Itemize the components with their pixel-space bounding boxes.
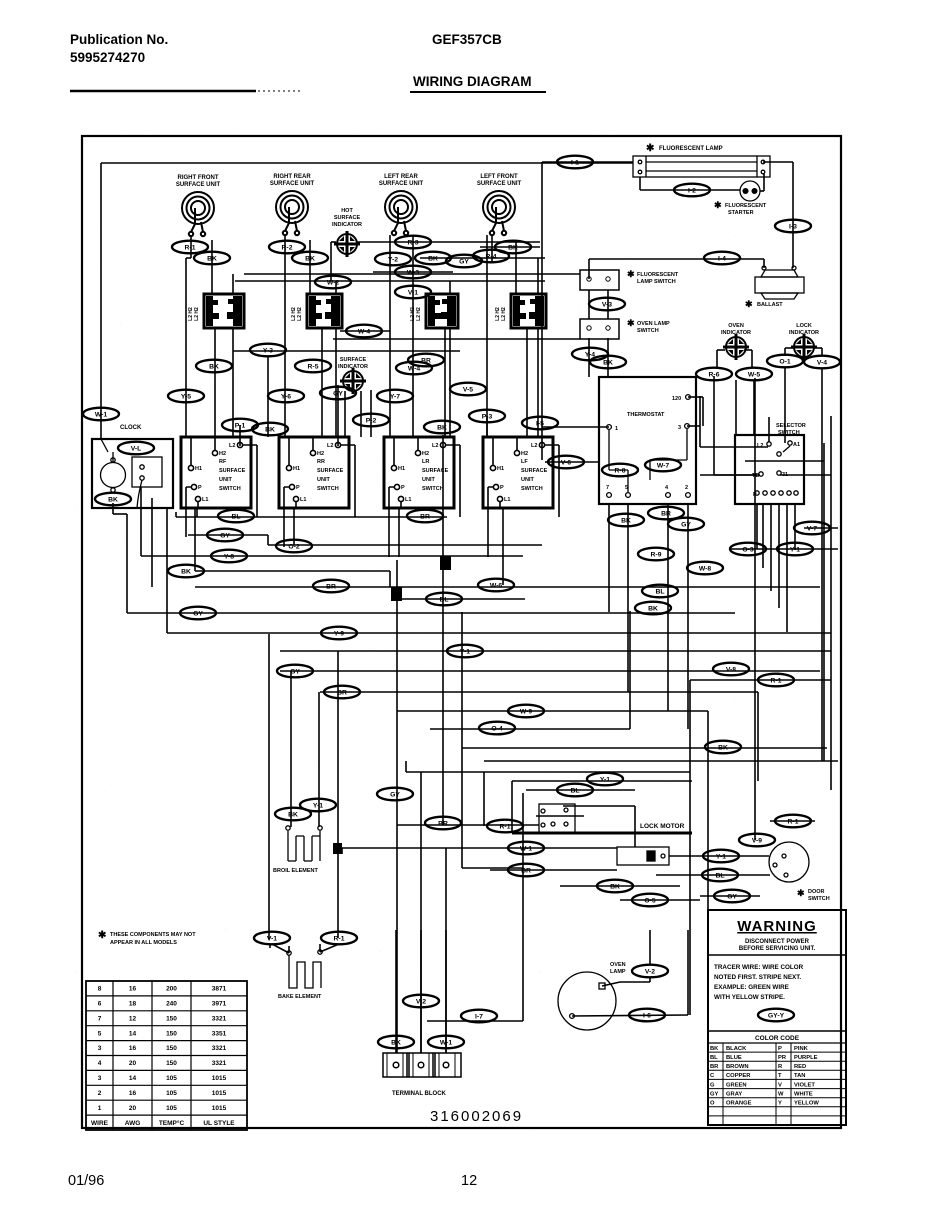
svg-text:Y-9: Y-9 [334, 630, 344, 637]
svg-text:31: 31 [782, 472, 788, 478]
svg-text:Y-3: Y-3 [263, 347, 273, 354]
svg-text:105: 105 [166, 1075, 177, 1082]
svg-text:COLOR CODE: COLOR CODE [755, 1035, 800, 1042]
svg-text:WITH YELLOW STRIPE.: WITH YELLOW STRIPE. [714, 994, 785, 1001]
svg-text:P: P [296, 485, 300, 491]
svg-text:SURFACE: SURFACE [340, 357, 367, 363]
svg-text:SWITCH: SWITCH [219, 486, 241, 492]
svg-text:PR: PR [778, 1055, 787, 1061]
svg-text:UNIT: UNIT [422, 477, 435, 483]
svg-text:G: G [710, 1082, 715, 1088]
svg-text:DOOR: DOOR [808, 889, 825, 895]
svg-text:2: 2 [685, 485, 688, 491]
svg-text:L1: L1 [202, 497, 208, 503]
svg-text:4: 4 [98, 1060, 102, 1067]
svg-text:L1: L1 [300, 497, 306, 503]
svg-text:P: P [401, 485, 405, 491]
svg-text:Y-6: Y-6 [281, 393, 291, 400]
svg-text:LAMP SWITCH: LAMP SWITCH [637, 279, 676, 285]
svg-text:✱: ✱ [627, 269, 635, 279]
svg-text:BR: BR [421, 357, 431, 364]
svg-text:Y-1: Y-1 [600, 776, 610, 783]
svg-text:SURFACE: SURFACE [219, 468, 246, 474]
svg-text:V-L: V-L [131, 445, 142, 452]
svg-text:O-1: O-1 [779, 358, 791, 365]
svg-text:V-1: V-1 [267, 935, 277, 942]
svg-text:BK: BK [391, 1039, 401, 1046]
svg-text:W-2: W-2 [327, 279, 340, 286]
svg-text:H2: H2 [317, 451, 324, 457]
svg-text:TRACER WIRE: WIRE COLOR: TRACER WIRE: WIRE COLOR [714, 964, 804, 971]
svg-text:T: T [778, 1073, 782, 1079]
svg-text:BR: BR [337, 689, 347, 696]
svg-text:LR: LR [422, 459, 429, 465]
svg-text:V-5: V-5 [463, 386, 473, 393]
svg-text:R-1: R-1 [788, 818, 799, 825]
svg-text:SWITCH: SWITCH [521, 486, 543, 492]
svg-text:P-1: P-1 [235, 422, 246, 429]
svg-text:6: 6 [98, 1001, 102, 1008]
svg-text:HOT: HOT [341, 208, 353, 214]
svg-text:ORANGE: ORANGE [726, 1101, 752, 1107]
svg-text:✱: ✱ [646, 143, 655, 154]
svg-text:R-1: R-1 [771, 677, 782, 684]
svg-text:L2 H2: L2 H2 [501, 307, 507, 321]
svg-text:W-9: W-9 [520, 708, 533, 715]
svg-text:120: 120 [672, 396, 681, 402]
svg-text:PINK: PINK [794, 1046, 809, 1052]
svg-text:LEFT REAR: LEFT REAR [384, 174, 418, 180]
svg-text:UL STYLE: UL STYLE [203, 1120, 235, 1127]
svg-text:14: 14 [129, 1075, 137, 1082]
svg-text:UNIT: UNIT [317, 477, 330, 483]
svg-text:GRAY: GRAY [726, 1091, 742, 1097]
svg-text:BK: BK [305, 255, 315, 262]
svg-text:W: W [778, 1091, 784, 1097]
svg-text:O-2: O-2 [288, 543, 300, 550]
svg-text:150: 150 [166, 1016, 177, 1023]
svg-text:✱: ✱ [714, 200, 722, 210]
svg-text:L2: L2 [531, 443, 537, 449]
svg-text:TAN: TAN [794, 1073, 805, 1079]
svg-text:✱: ✱ [745, 299, 753, 309]
svg-text:FLUORESCENT LAMP: FLUORESCENT LAMP [659, 146, 723, 152]
svg-text:PURPLE: PURPLE [794, 1055, 818, 1061]
svg-text:200: 200 [166, 986, 177, 993]
svg-text:L2: L2 [757, 443, 763, 449]
svg-text:Y-1: Y-1 [716, 853, 726, 860]
svg-text:✱: ✱ [98, 930, 107, 941]
svg-text:R-3: R-3 [408, 239, 419, 246]
svg-text:A1: A1 [793, 442, 800, 448]
svg-text:GY: GY [290, 668, 300, 675]
svg-text:BL: BL [439, 596, 448, 603]
svg-text:TERMINAL BLOCK: TERMINAL BLOCK [392, 1091, 447, 1097]
svg-text:OVEN LAMP: OVEN LAMP [637, 321, 670, 327]
svg-text:V-8: V-8 [726, 666, 736, 673]
svg-text:Y-8: Y-8 [224, 553, 234, 560]
svg-text:3351: 3351 [212, 1030, 227, 1037]
svg-text:SURFACE: SURFACE [422, 468, 449, 474]
svg-text:V-3: V-3 [602, 301, 612, 308]
svg-text:7: 7 [606, 485, 609, 491]
svg-text:FLUORESCENT: FLUORESCENT [725, 203, 767, 209]
svg-text:20: 20 [129, 1060, 137, 1067]
svg-text:14: 14 [129, 1030, 137, 1037]
svg-text:INDICATOR: INDICATOR [789, 330, 819, 336]
svg-text:H2: H2 [422, 451, 429, 457]
svg-text:O-3: O-3 [742, 546, 754, 553]
svg-text:I-3: I-3 [789, 223, 797, 230]
svg-text:R-1: R-1 [334, 935, 345, 942]
svg-text:I-5: I-5 [536, 420, 544, 427]
svg-text:BLUE: BLUE [726, 1055, 742, 1061]
svg-text:WARNING: WARNING [737, 918, 817, 935]
svg-text:FLUORESCENT: FLUORESCENT [637, 272, 679, 278]
svg-text:P-2: P-2 [366, 417, 377, 424]
svg-text:H1: H1 [293, 466, 300, 472]
svg-text:BK: BK [207, 255, 217, 262]
svg-text:V-4: V-4 [817, 359, 827, 366]
svg-text:P: P [500, 485, 504, 491]
svg-text:V-6: V-6 [561, 459, 571, 466]
svg-text:SURFACE UNIT: SURFACE UNIT [270, 181, 315, 187]
svg-text:V-1: V-1 [408, 289, 418, 296]
svg-text:12: 12 [129, 1016, 137, 1023]
svg-text:SURFACE: SURFACE [317, 468, 344, 474]
svg-text:L2: L2 [327, 443, 333, 449]
svg-text:240: 240 [166, 1001, 177, 1008]
svg-text:GY: GY [193, 610, 203, 617]
svg-text:V-9: V-9 [752, 837, 762, 844]
svg-text:L2 H2: L2 H2 [297, 307, 303, 321]
svg-text:BK: BK [718, 744, 728, 751]
svg-text:3: 3 [98, 1075, 102, 1082]
svg-text:INDICATOR: INDICATOR [332, 222, 362, 228]
svg-text:THESE COMPONENTS MAY NOT: THESE COMPONENTS MAY NOT [110, 932, 196, 938]
svg-text:APPEAR IN ALL MODELS: APPEAR IN ALL MODELS [110, 940, 177, 946]
svg-text:SWITCH: SWITCH [422, 486, 444, 492]
svg-text:Y-2: Y-2 [388, 256, 398, 263]
svg-text:SELECTOR: SELECTOR [776, 423, 806, 429]
svg-text:WIRING DIAGRAM: WIRING DIAGRAM [413, 74, 532, 89]
svg-text:5995274270: 5995274270 [70, 50, 145, 65]
svg-text:3: 3 [678, 425, 681, 431]
svg-text:Y-4: Y-4 [585, 351, 595, 358]
svg-text:BR: BR [661, 510, 671, 517]
svg-text:1015: 1015 [212, 1075, 227, 1082]
svg-text:✱: ✱ [797, 888, 805, 898]
svg-text:Y-1: Y-1 [313, 802, 323, 809]
svg-text:P: P [778, 1046, 782, 1052]
svg-text:BL: BL [570, 787, 579, 794]
svg-text:BK: BK [648, 605, 658, 612]
svg-text:105: 105 [166, 1105, 177, 1112]
svg-text:BK: BK [603, 359, 613, 366]
svg-text:H1: H1 [398, 466, 405, 472]
svg-text:3871: 3871 [212, 986, 227, 993]
svg-text:LOCK MOTOR: LOCK MOTOR [640, 823, 685, 830]
svg-text:O-4: O-4 [491, 725, 503, 732]
svg-text:GY-Y: GY-Y [768, 1012, 785, 1019]
svg-text:R-9: R-9 [651, 551, 662, 558]
svg-text:BEFORE SERVICING UNIT.: BEFORE SERVICING UNIT. [739, 946, 816, 952]
svg-text:AWG: AWG [125, 1120, 141, 1127]
svg-text:L2 H2: L2 H2 [291, 307, 297, 321]
svg-text:1: 1 [615, 426, 618, 432]
svg-text:I-6: I-6 [643, 1012, 651, 1019]
svg-text:W-8: W-8 [699, 565, 712, 572]
svg-text:V: V [778, 1082, 782, 1088]
svg-text:BR: BR [710, 1064, 719, 1070]
svg-text:SWITCH: SWITCH [637, 328, 659, 334]
svg-text:1015: 1015 [212, 1105, 227, 1112]
svg-text:THERMOSTAT: THERMOSTAT [627, 412, 665, 418]
svg-text:SURFACE UNIT: SURFACE UNIT [477, 181, 522, 187]
svg-text:RR: RR [317, 459, 325, 465]
svg-text:H1: H1 [497, 466, 504, 472]
svg-text:BR: BR [326, 583, 336, 590]
svg-text:BAKE ELEMENT: BAKE ELEMENT [278, 994, 322, 1000]
svg-text:Publication No.: Publication No. [70, 32, 168, 47]
svg-text:W-6: W-6 [490, 582, 503, 589]
svg-text:3321: 3321 [212, 1045, 227, 1052]
svg-text:INDICATOR: INDICATOR [721, 330, 751, 336]
svg-text:BL: BL [710, 1055, 718, 1061]
svg-text:W-4: W-4 [358, 328, 371, 335]
svg-text:W-1: W-1 [95, 411, 108, 418]
svg-text:V-2: V-2 [645, 968, 655, 975]
svg-text:RED: RED [794, 1064, 806, 1070]
svg-text:W-4: W-4 [408, 365, 421, 372]
svg-text:LOCK: LOCK [796, 323, 812, 329]
svg-text:SURFACE: SURFACE [334, 215, 361, 221]
svg-text:R-1: R-1 [500, 823, 511, 830]
svg-text:WIRE: WIRE [91, 1120, 109, 1127]
svg-text:SWITCH: SWITCH [778, 430, 800, 436]
svg-text:UNIT: UNIT [219, 477, 232, 483]
svg-text:O: O [710, 1101, 715, 1107]
svg-text:W-7: W-7 [657, 462, 670, 469]
svg-text:3321: 3321 [212, 1016, 227, 1023]
svg-text:W-1: W-1 [440, 1039, 453, 1046]
svg-text:BK: BK [621, 517, 631, 524]
svg-text:GY: GY [333, 390, 343, 397]
svg-text:CLOCK: CLOCK [120, 425, 142, 431]
svg-text:20: 20 [129, 1105, 137, 1112]
svg-text:2: 2 [98, 1090, 102, 1097]
svg-text:V-2: V-2 [416, 998, 426, 1005]
svg-text:5: 5 [98, 1030, 102, 1037]
svg-text:INDICATOR: INDICATOR [338, 364, 368, 370]
svg-text:GY: GY [681, 521, 691, 528]
svg-text:Y-7: Y-7 [390, 393, 400, 400]
svg-text:P: P [198, 485, 202, 491]
svg-text:BK: BK [428, 255, 438, 262]
svg-text:L1: L1 [405, 497, 411, 503]
svg-text:BROWN: BROWN [726, 1064, 749, 1070]
svg-text:BR: BR [438, 820, 448, 827]
svg-text:GY: GY [710, 1091, 719, 1097]
svg-text:SURFACE UNIT: SURFACE UNIT [176, 182, 221, 188]
svg-text:R-6: R-6 [709, 371, 720, 378]
svg-text:L2: L2 [432, 443, 438, 449]
svg-text:BK: BK [108, 496, 118, 503]
svg-text:GREEN: GREEN [726, 1082, 747, 1088]
svg-text:SURFACE: SURFACE [521, 468, 548, 474]
svg-text:BK: BK [181, 568, 191, 575]
svg-text:Y-5: Y-5 [181, 393, 191, 400]
svg-text:1015: 1015 [212, 1090, 227, 1097]
svg-text:GEF357CB: GEF357CB [432, 32, 502, 47]
svg-text:NOTED FIRST. STRIPE NEXT.: NOTED FIRST. STRIPE NEXT. [714, 974, 801, 981]
svg-text:R-5: R-5 [308, 363, 319, 370]
svg-text:EXAMPLE: GREEN WIRE: EXAMPLE: GREEN WIRE [714, 984, 789, 991]
svg-text:BL: BL [231, 513, 240, 520]
svg-text:BK: BK [265, 426, 275, 433]
svg-text:COPPER: COPPER [726, 1073, 751, 1079]
svg-text:12: 12 [461, 1173, 477, 1189]
svg-text:L2 H2: L2 H2 [416, 307, 422, 321]
svg-text:O-5: O-5 [644, 897, 656, 904]
svg-text:I-1: I-1 [571, 159, 579, 166]
svg-text:3321: 3321 [212, 1060, 227, 1067]
svg-text:16: 16 [129, 1045, 137, 1052]
svg-text:L2 H2: L2 H2 [194, 307, 200, 321]
svg-text:01/96: 01/96 [68, 1173, 104, 1189]
svg-text:R-1: R-1 [185, 244, 196, 251]
svg-text:LEFT FRONT: LEFT FRONT [480, 174, 518, 180]
svg-text:3971: 3971 [212, 1001, 227, 1008]
svg-text:V-7: V-7 [807, 525, 817, 532]
svg-text:GY: GY [220, 532, 230, 539]
svg-text:BK: BK [610, 883, 620, 890]
svg-text:L2 H2: L2 H2 [495, 307, 501, 321]
svg-text:BLACK: BLACK [726, 1046, 747, 1052]
svg-text:SURFACE UNIT: SURFACE UNIT [379, 181, 424, 187]
svg-text:GY: GY [727, 893, 737, 900]
svg-text:150: 150 [166, 1030, 177, 1037]
svg-text:GY: GY [390, 791, 400, 798]
svg-text:BK: BK [437, 424, 447, 431]
svg-text:BROIL ELEMENT: BROIL ELEMENT [273, 868, 318, 874]
svg-text:STARTER: STARTER [728, 210, 754, 216]
svg-text:Y-1: Y-1 [460, 648, 470, 655]
svg-text:8: 8 [98, 986, 102, 993]
svg-text:R-8: R-8 [615, 467, 626, 474]
svg-text:LF: LF [521, 459, 528, 465]
svg-text:DISCONNECT POWER: DISCONNECT POWER [745, 939, 810, 945]
svg-text:W-3: W-3 [407, 269, 420, 276]
svg-text:VIOLET: VIOLET [794, 1082, 815, 1088]
svg-text:BR: BR [521, 867, 531, 874]
svg-text:316002069: 316002069 [430, 1108, 523, 1125]
svg-text:RF: RF [219, 459, 227, 465]
svg-text:YELLOW: YELLOW [794, 1101, 819, 1107]
svg-text:L2 H2: L2 H2 [410, 307, 416, 321]
svg-text:OVEN: OVEN [728, 323, 744, 329]
svg-text:OVEN: OVEN [610, 962, 626, 968]
svg-text:H1: H1 [195, 466, 202, 472]
svg-text:Y-1: Y-1 [790, 546, 800, 553]
svg-text:I-4: I-4 [718, 255, 726, 262]
svg-text:I-2: I-2 [688, 187, 696, 194]
svg-text:105: 105 [166, 1090, 177, 1097]
svg-text:RIGHT FRONT: RIGHT FRONT [178, 175, 219, 181]
svg-text:SWITCH: SWITCH [317, 486, 339, 492]
svg-text:RIGHT REAR: RIGHT REAR [273, 174, 311, 180]
svg-text:L2: L2 [229, 443, 235, 449]
svg-text:TEMP°C: TEMP°C [159, 1119, 185, 1127]
svg-text:BL: BL [715, 872, 724, 879]
svg-text:L1: L1 [504, 497, 510, 503]
svg-text:BK: BK [710, 1046, 719, 1052]
svg-text:BL: BL [655, 588, 664, 595]
svg-text:I-7: I-7 [475, 1013, 483, 1020]
svg-text:150: 150 [166, 1060, 177, 1067]
svg-text:BR: BR [420, 513, 430, 520]
svg-text:L2 H2: L2 H2 [188, 307, 194, 321]
svg-text:R-2: R-2 [282, 244, 293, 251]
svg-text:GY: GY [459, 258, 469, 265]
svg-text:W-5: W-5 [748, 371, 761, 378]
svg-text:BALLAST: BALLAST [757, 302, 783, 308]
svg-text:1: 1 [98, 1105, 102, 1112]
svg-text:Y: Y [778, 1101, 782, 1107]
svg-text:LAMP: LAMP [610, 969, 626, 975]
svg-text:R-4: R-4 [486, 253, 497, 260]
svg-text:150: 150 [166, 1045, 177, 1052]
svg-text:3: 3 [98, 1045, 102, 1052]
svg-text:7: 7 [98, 1016, 102, 1023]
svg-text:✱: ✱ [627, 318, 635, 328]
svg-text:W-1: W-1 [520, 845, 533, 852]
svg-text:16: 16 [129, 986, 137, 993]
svg-text:18: 18 [129, 1001, 137, 1008]
svg-text:BK: BK [209, 363, 219, 370]
svg-text:BK: BK [508, 244, 518, 251]
svg-text:UNIT: UNIT [521, 477, 534, 483]
svg-text:H2: H2 [219, 451, 226, 457]
svg-text:SWITCH: SWITCH [808, 896, 830, 902]
svg-text:BK: BK [288, 811, 298, 818]
svg-text:16: 16 [129, 1090, 137, 1097]
svg-text:WHITE: WHITE [794, 1091, 813, 1097]
svg-text:P-3: P-3 [482, 413, 493, 420]
svg-text:H2: H2 [521, 451, 528, 457]
